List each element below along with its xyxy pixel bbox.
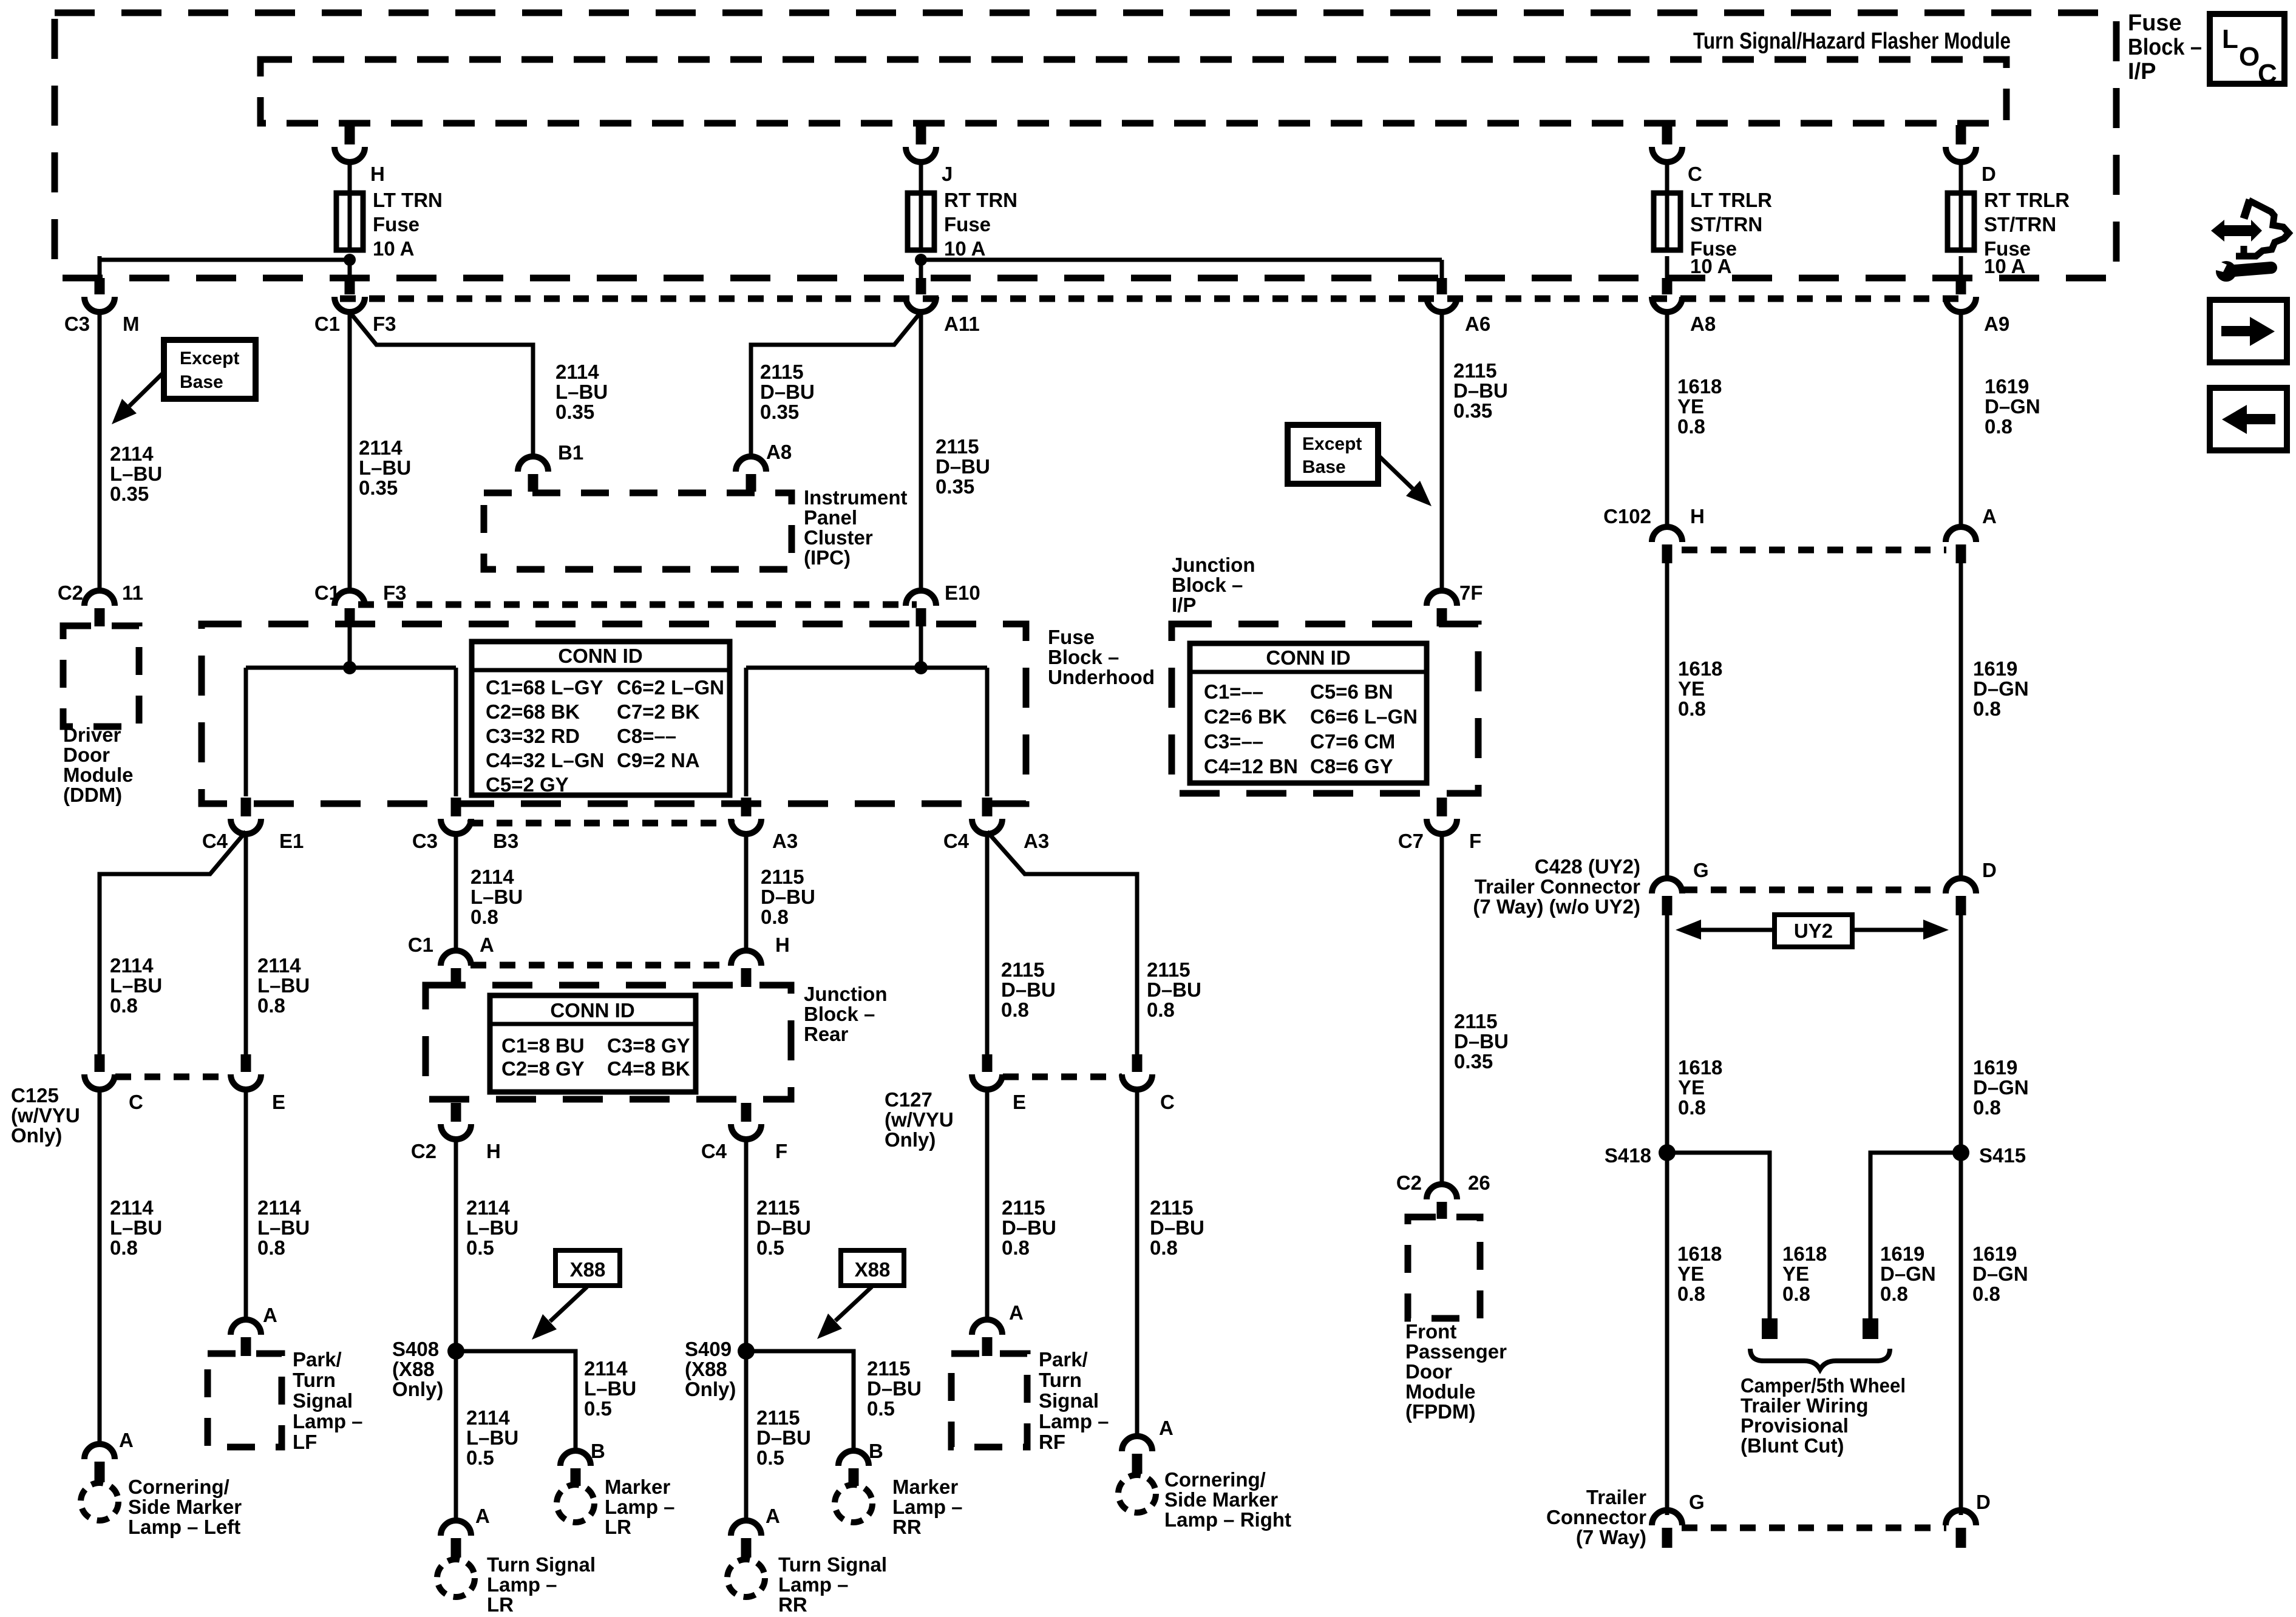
wire T split E10	[746, 666, 987, 670]
svg-text:Door: Door	[63, 744, 110, 766]
connector A turn LR	[451, 1538, 461, 1558]
wire drop to connector row	[1959, 256, 1963, 279]
svg-text:Rear: Rear	[804, 1023, 849, 1045]
svg-text:D: D	[1976, 1491, 1991, 1513]
brace camper wiring	[1750, 1349, 1890, 1369]
svg-text:(X88: (X88	[392, 1358, 435, 1380]
svg-text:Block –: Block –	[804, 1003, 875, 1025]
svg-text:0.8: 0.8	[1002, 1236, 1030, 1259]
svg-text:C6=2 L–GN: C6=2 L–GN	[617, 676, 724, 699]
lamp Marker Lamp LR	[557, 1485, 594, 1522]
connector C428 D	[1956, 896, 1966, 915]
connector C2/11 to DDM	[95, 608, 105, 626]
svg-text:CONN ID: CONN ID	[558, 645, 642, 667]
connector A cornering left	[95, 1462, 105, 1482]
wire down to C3/B3	[454, 668, 458, 796]
connector C3/M row1	[95, 278, 105, 294]
dotted line row2	[358, 602, 917, 608]
wire S415 down to trailer D	[1959, 1153, 1963, 1515]
svg-text:C1: C1	[408, 934, 433, 956]
svg-text:RR: RR	[892, 1516, 922, 1538]
svg-text:Turn Signal: Turn Signal	[487, 1553, 596, 1576]
UY2 range arrow	[1701, 928, 1815, 932]
svg-text:E: E	[272, 1091, 285, 1113]
wire A11 down	[919, 310, 923, 593]
svg-text:2115: 2115	[1150, 1196, 1194, 1219]
svg-text:Lamp –: Lamp –	[487, 1573, 557, 1596]
svg-text:C1=––: C1=––	[1204, 680, 1263, 703]
wire drop to connector row	[1665, 256, 1669, 279]
svg-text:0.8: 0.8	[1677, 1283, 1705, 1305]
wire C125 C down to cornering lamp	[98, 1088, 102, 1446]
svg-text:F: F	[1469, 830, 1481, 852]
lamp Cornering/Side Marker Left	[81, 1483, 118, 1520]
wire down to A3	[744, 668, 749, 796]
connector A8 row1	[1662, 278, 1673, 294]
svg-text:L–BU: L–BU	[555, 381, 608, 403]
svg-text:Lamp –: Lamp –	[1039, 1410, 1109, 1432]
svg-text:C3=32 RD: C3=32 RD	[486, 725, 580, 747]
connector C125 E	[241, 1054, 251, 1072]
svg-text:2115: 2115	[1453, 359, 1497, 382]
svg-text:A: A	[475, 1505, 490, 1527]
Park/Turn Signal Lamp LF dashed box	[208, 1354, 282, 1447]
svg-text:Base: Base	[1302, 457, 1346, 477]
CONN ID table 2	[1190, 643, 1427, 783]
connector C4/A3	[982, 798, 993, 816]
junction dot under RT TRN fuse	[915, 254, 927, 266]
svg-text:C2: C2	[1396, 1171, 1422, 1194]
svg-text:2115: 2115	[756, 1196, 800, 1219]
svg-text:2115: 2115	[1001, 958, 1045, 981]
fuse RT TRN Fuse/10 A	[919, 193, 923, 250]
svg-text:X88: X88	[570, 1258, 606, 1281]
svg-text:A6: A6	[1465, 313, 1490, 335]
svg-text:2114: 2114	[359, 436, 402, 459]
svg-text:Lamp –: Lamp –	[293, 1410, 363, 1432]
svg-text:C5=6 BN: C5=6 BN	[1310, 680, 1393, 703]
svg-text:YE: YE	[1677, 1263, 1704, 1285]
connector H rear	[741, 968, 752, 987]
svg-text:0.8: 0.8	[1782, 1283, 1810, 1305]
svg-text:Fuse: Fuse	[2128, 10, 2182, 36]
svg-text:C4=8 BK: C4=8 BK	[607, 1057, 690, 1080]
svg-text:ST/TRN: ST/TRN	[1984, 213, 2056, 236]
Turn Signal/Hazard Flasher Module dashed box	[260, 59, 2006, 123]
svg-text:A8: A8	[766, 441, 792, 463]
wire S415 blunt branch	[1870, 1153, 1961, 1318]
dotted line row C1/A	[470, 962, 732, 969]
svg-text:M: M	[123, 313, 140, 335]
svg-text:YE: YE	[1678, 677, 1705, 700]
arrow from X88 box 2	[835, 1287, 872, 1321]
connector C1/F3 row1	[345, 278, 355, 294]
svg-text:S418: S418	[1605, 1144, 1651, 1167]
svg-text:C: C	[1160, 1091, 1175, 1113]
svg-text:Turn: Turn	[1039, 1369, 1082, 1391]
svg-text:(DDM): (DDM)	[63, 784, 122, 806]
svg-text:Trailer Wiring: Trailer Wiring	[1741, 1394, 1869, 1417]
svg-text:D–BU: D–BU	[1454, 1030, 1509, 1053]
svg-text:A11: A11	[944, 313, 980, 335]
svg-text:0.35: 0.35	[555, 401, 594, 423]
svg-text:A: A	[119, 1429, 134, 1451]
CONN ID table 3	[490, 995, 696, 1092]
svg-text:O: O	[2239, 42, 2260, 72]
svg-text:Signal: Signal	[293, 1389, 353, 1412]
svg-text:A: A	[766, 1505, 780, 1527]
svg-text:ST/TRN: ST/TRN	[1690, 213, 1762, 236]
svg-text:C4: C4	[943, 830, 970, 852]
svg-text:S408: S408	[392, 1338, 439, 1360]
svg-text:D–BU: D–BU	[867, 1377, 922, 1400]
svg-text:D–BU: D–BU	[1453, 379, 1508, 402]
arrow from Except Base left	[129, 372, 164, 406]
junction S418	[1659, 1144, 1676, 1161]
wire C to fuse	[1665, 160, 1669, 193]
svg-text:2114: 2114	[110, 442, 154, 465]
svg-text:C: C	[1688, 163, 1702, 185]
Instrument Panel Cluster dashed box	[484, 493, 792, 569]
svg-text:Cornering/: Cornering/	[1164, 1468, 1266, 1491]
connector C7/F	[1437, 798, 1447, 816]
svg-text:C4=12 BN: C4=12 BN	[1204, 755, 1298, 778]
svg-text:E10: E10	[945, 581, 980, 604]
svg-text:2114: 2114	[584, 1357, 628, 1380]
svg-text:1619: 1619	[1973, 1056, 2017, 1079]
connector A park RF	[982, 1337, 993, 1356]
connector A park LF	[241, 1337, 251, 1356]
dotted line C127	[1003, 1074, 1122, 1080]
svg-text:0.8: 0.8	[1678, 1096, 1706, 1119]
svg-text:0.35: 0.35	[1454, 1050, 1493, 1073]
connector C127 E	[982, 1054, 993, 1072]
svg-text:10 A: 10 A	[373, 237, 414, 260]
svg-text:D–BU: D–BU	[756, 1426, 811, 1449]
svg-text:2115: 2115	[867, 1357, 911, 1380]
svg-text:10 A: 10 A	[1690, 255, 1731, 277]
svg-text:D–GN: D–GN	[1973, 677, 2029, 700]
svg-text:0.8: 0.8	[1150, 1236, 1178, 1259]
svg-text:B1: B1	[558, 441, 583, 464]
svg-text:D–BU: D–BU	[1002, 1216, 1056, 1239]
wire S418 down to trailer G	[1665, 1153, 1669, 1515]
svg-text:1619: 1619	[1985, 375, 2029, 398]
svg-text:X88: X88	[855, 1258, 891, 1281]
svg-text:L–BU: L–BU	[584, 1377, 636, 1400]
svg-text:Camper/5th Wheel: Camper/5th Wheel	[1741, 1374, 1906, 1397]
connector C3/B3	[451, 798, 461, 816]
svg-text:0.35: 0.35	[936, 475, 974, 498]
svg-text:D–GN: D–GN	[1973, 1076, 2029, 1099]
wire drop to connector row	[98, 256, 102, 279]
svg-text:0.8: 0.8	[1973, 1096, 2001, 1119]
svg-text:(X88: (X88	[685, 1358, 727, 1380]
connector C2/26 into FPDM	[1437, 1202, 1447, 1219]
svg-text:L–BU: L–BU	[466, 1216, 518, 1239]
svg-text:Lamp – Left: Lamp – Left	[128, 1516, 240, 1538]
svg-text:1618: 1618	[1677, 375, 1722, 398]
svg-text:L–BU: L–BU	[466, 1426, 518, 1449]
svg-text:(w/VYU: (w/VYU	[11, 1104, 80, 1127]
connector trailer D	[1956, 1528, 1966, 1548]
svg-text:(IPC): (IPC)	[804, 546, 851, 569]
svg-text:YE: YE	[1677, 395, 1704, 418]
svg-text:Signal: Signal	[1039, 1389, 1099, 1412]
wire drop to connector row	[919, 256, 923, 279]
svg-text:0.5: 0.5	[466, 1236, 494, 1259]
wire S418 blunt branch	[1667, 1153, 1770, 1318]
wire A down to C428 D	[1959, 563, 1963, 881]
connector A9 row1	[1956, 278, 1966, 294]
svg-text:Park/: Park/	[1039, 1348, 1088, 1371]
svg-text:0.8: 0.8	[257, 1236, 285, 1259]
dotted in-line connector row C1..A9	[340, 296, 1967, 302]
svg-text:0.8: 0.8	[1973, 697, 2001, 720]
svg-text:D–BU: D–BU	[1147, 978, 1201, 1001]
right turn arrow box	[2210, 300, 2287, 362]
svg-text:(7 Way) (w/o UY2): (7 Way) (w/o UY2)	[1473, 895, 1640, 918]
wire C127 E down to park lamp RF	[985, 1088, 990, 1322]
svg-text:Fuse: Fuse	[1048, 626, 1095, 648]
connector C102 A	[1956, 544, 1966, 563]
connector B marker RR	[849, 1468, 859, 1486]
wire H down to C428 G	[1665, 563, 1669, 881]
connector C4/F	[741, 1103, 752, 1122]
svg-text:2115: 2115	[756, 1406, 800, 1429]
svg-text:S415: S415	[1979, 1144, 2026, 1167]
connector A cornering right	[1132, 1454, 1143, 1474]
svg-text:H: H	[775, 934, 790, 956]
svg-text:A3: A3	[772, 830, 798, 852]
fuse LT TRN Fuse/10 A	[348, 193, 352, 250]
dotted line C428	[1682, 887, 1946, 893]
junction S415	[1952, 1144, 1969, 1161]
wire S409 down	[744, 1351, 749, 1524]
svg-text:Module: Module	[1405, 1380, 1475, 1403]
svg-text:2115: 2115	[1002, 1196, 1045, 1219]
connector E10	[916, 608, 926, 626]
svg-text:RT TRLR: RT TRLR	[1984, 189, 2070, 211]
svg-text:Only): Only)	[685, 1378, 736, 1400]
svg-text:Except: Except	[180, 348, 239, 368]
svg-text:0.8: 0.8	[1677, 415, 1705, 438]
svg-text:C3: C3	[64, 313, 90, 335]
svg-text:Side Marker: Side Marker	[1164, 1488, 1278, 1511]
junction S408	[447, 1343, 464, 1360]
svg-text:C2=6 BK: C2=6 BK	[1204, 705, 1287, 728]
connector A8 into IPC	[746, 474, 756, 492]
svg-text:C4=32 L–GN: C4=32 L–GN	[486, 749, 604, 771]
svg-text:D–BU: D–BU	[760, 381, 815, 403]
connector A11 row1	[916, 278, 926, 294]
svg-text:A8: A8	[1690, 313, 1716, 335]
svg-text:E1: E1	[279, 830, 304, 852]
svg-text:Fuse: Fuse	[944, 213, 991, 236]
wire C7/F down to C2/26	[1440, 832, 1444, 1187]
wire B3 down	[454, 832, 458, 953]
svg-text:D–BU: D–BU	[936, 455, 990, 478]
connector C102 H	[1662, 544, 1673, 563]
svg-text:C: C	[2258, 59, 2277, 89]
svg-text:0.5: 0.5	[867, 1397, 895, 1420]
Driver Door Module dashed box	[63, 626, 139, 727]
wire C3/M down	[98, 310, 102, 593]
svg-text:Junction: Junction	[1172, 554, 1255, 576]
svg-text:Front: Front	[1405, 1320, 1456, 1343]
svg-text:0.8: 0.8	[1147, 998, 1175, 1021]
wire C4/F down to S409	[744, 1137, 749, 1360]
svg-text:2114: 2114	[470, 866, 514, 888]
svg-text:Turn: Turn	[293, 1369, 336, 1391]
svg-text:C428 (UY2): C428 (UY2)	[1535, 855, 1640, 878]
lamp Turn Signal Lamp RR	[727, 1559, 765, 1597]
svg-text:E: E	[1013, 1091, 1026, 1113]
svg-text:Connector: Connector	[1546, 1506, 1646, 1528]
Except Base callout box left	[164, 340, 256, 399]
blunt cut stub right	[1863, 1318, 1878, 1339]
wire E10 into box	[919, 625, 923, 668]
svg-text:F3: F3	[373, 313, 396, 335]
svg-text:B3: B3	[493, 830, 518, 852]
svg-text:D–BU: D–BU	[756, 1216, 811, 1239]
svg-text:C: C	[129, 1091, 143, 1113]
svg-text:Cluster: Cluster	[804, 526, 873, 549]
svg-text:1618: 1618	[1782, 1242, 1827, 1265]
connector C1/A	[451, 968, 461, 987]
svg-text:L–BU: L–BU	[359, 456, 411, 479]
svg-text:Instrument: Instrument	[804, 486, 908, 509]
svg-text:0.8: 0.8	[1001, 998, 1029, 1021]
svg-text:2114: 2114	[555, 361, 599, 383]
wire C2/H down to S408	[454, 1137, 458, 1360]
wire bus right (RT TRN fuse to A6 wire)	[921, 258, 1442, 262]
svg-text:Fuse: Fuse	[373, 213, 419, 236]
svg-text:H: H	[486, 1140, 501, 1162]
svg-text:Provisional: Provisional	[1741, 1414, 1849, 1437]
svg-text:C7=6 CM: C7=6 CM	[1310, 730, 1395, 753]
svg-text:F: F	[775, 1140, 787, 1162]
svg-text:0.8: 0.8	[110, 1236, 138, 1259]
svg-text:UY2: UY2	[1794, 920, 1833, 942]
svg-text:LT TRN: LT TRN	[373, 189, 443, 211]
svg-text:C1=68 L–GY: C1=68 L–GY	[486, 676, 603, 699]
dotted line trailer connector	[1682, 1525, 1946, 1531]
wire C4/E1 diagonal to C125 C	[100, 832, 246, 1056]
svg-text:0.5: 0.5	[466, 1446, 494, 1469]
svg-text:C2=68 BK: C2=68 BK	[486, 700, 580, 723]
svg-text:Turn Signal/Hazard Flasher Mod: Turn Signal/Hazard Flasher Module	[1693, 29, 2011, 54]
svg-text:C3=8 GY: C3=8 GY	[607, 1034, 690, 1057]
connector pin J of flasher module	[916, 125, 926, 144]
wire C127 C down to cornering right	[1135, 1088, 1140, 1439]
wire G down to S418	[1665, 915, 1669, 1153]
X88 callout box 2	[841, 1250, 904, 1286]
connector 7F	[1437, 608, 1447, 626]
svg-text:A3: A3	[1024, 830, 1049, 852]
svg-text:2115: 2115	[1454, 1010, 1498, 1032]
svg-text:0.5: 0.5	[756, 1236, 784, 1259]
svg-text:D–GN: D–GN	[1972, 1263, 2028, 1285]
svg-text:D–GN: D–GN	[1985, 395, 2040, 418]
fuse LT TRLR ST/TRN/Fuse/10 A	[1665, 193, 1669, 250]
connector A3	[741, 798, 752, 816]
svg-text:Module: Module	[63, 764, 133, 786]
junction dot C1 split	[343, 661, 356, 674]
svg-text:2115: 2115	[936, 435, 979, 458]
svg-text:Turn Signal: Turn Signal	[778, 1553, 887, 1576]
wire E1 down	[244, 832, 248, 1056]
svg-text:CONN ID: CONN ID	[550, 999, 634, 1022]
Junction Block - I/P dashed box	[1172, 624, 1478, 793]
arrow from Except Base right	[1378, 455, 1413, 489]
junction S409	[738, 1343, 755, 1360]
svg-text:H: H	[370, 163, 385, 185]
svg-text:2115: 2115	[760, 361, 804, 383]
svg-text:C7=2 BK: C7=2 BK	[617, 700, 700, 723]
svg-text:A: A	[1009, 1301, 1024, 1324]
connector B1 into IPC	[528, 474, 538, 492]
svg-text:C2=8 GY: C2=8 GY	[501, 1057, 585, 1080]
svg-text:Side Marker: Side Marker	[128, 1496, 242, 1518]
svg-text:C102: C102	[1603, 505, 1651, 527]
svg-text:Marker: Marker	[892, 1476, 958, 1498]
svg-text:1618: 1618	[1678, 1056, 1722, 1079]
svg-text:C127: C127	[885, 1088, 932, 1111]
svg-text:Only): Only)	[392, 1378, 443, 1400]
wire down to C4/E1	[244, 668, 248, 796]
svg-text:C4: C4	[202, 830, 228, 852]
connector trailer G	[1662, 1528, 1673, 1548]
Fuse Block - Underhood dashed box	[202, 624, 1026, 804]
connector C1/F3 second	[345, 608, 355, 626]
svg-text:S409: S409	[685, 1338, 732, 1360]
wire C4/A3 diagonal to C127 C	[987, 832, 1137, 1056]
wire down to C4/A3	[985, 668, 990, 796]
svg-text:0.8: 0.8	[470, 906, 498, 928]
wire S408 down	[454, 1351, 458, 1524]
LOC legend box	[2210, 14, 2284, 84]
wire drop to connector row	[348, 256, 352, 279]
Front Passenger Door Module dashed box	[1408, 1217, 1480, 1318]
svg-text:10 A: 10 A	[944, 237, 985, 260]
svg-text:Only): Only)	[885, 1128, 936, 1151]
dotted line row3 left	[467, 820, 735, 827]
svg-text:D–BU: D–BU	[1150, 1216, 1204, 1239]
svg-text:Block –: Block –	[1048, 646, 1119, 668]
svg-text:C4: C4	[701, 1140, 727, 1162]
svg-text:1618: 1618	[1677, 1242, 1722, 1265]
CONN ID table 1	[472, 642, 730, 795]
wire branch S409 to marker RR	[746, 1351, 854, 1454]
svg-text:2114: 2114	[466, 1406, 510, 1429]
service icon wrench	[2216, 261, 2237, 282]
svg-text:C125: C125	[11, 1084, 59, 1107]
svg-text:0.8: 0.8	[1678, 697, 1706, 720]
wire J to fuse	[919, 160, 923, 193]
svg-text:0.8: 0.8	[1880, 1283, 1908, 1305]
svg-text:L–BU: L–BU	[110, 974, 162, 997]
svg-text:(7 Way): (7 Way)	[1576, 1526, 1646, 1548]
svg-text:Lamp – Right: Lamp – Right	[1164, 1508, 1291, 1531]
Junction Block - Rear dashed box	[426, 985, 791, 1099]
wire C1/F3 down	[348, 310, 352, 593]
svg-text:D–BU: D–BU	[761, 886, 815, 908]
svg-text:L–BU: L–BU	[257, 1216, 310, 1239]
wire bus left (LT TRN fuse to C3 wire)	[100, 258, 350, 262]
svg-text:0.8: 0.8	[110, 994, 138, 1017]
svg-text:0.35: 0.35	[110, 483, 149, 505]
